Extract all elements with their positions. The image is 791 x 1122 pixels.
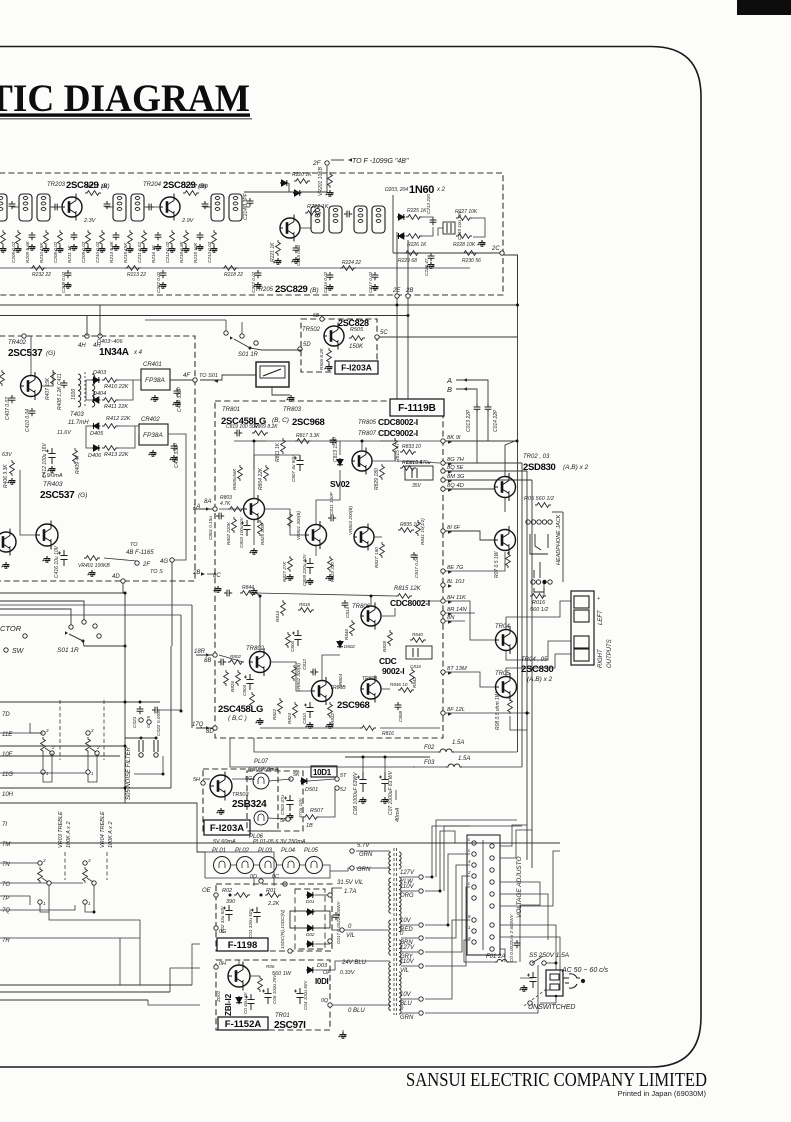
selector contact e: [23, 634, 27, 638]
node 8R 14N: [441, 611, 445, 615]
svg-text:4B F-1165: 4B F-1165: [126, 550, 154, 556]
ground ch2 b: [306, 722, 314, 728]
capacitor C220 47: [428, 253, 435, 261]
arrow 8D: [206, 726, 210, 730]
capacitor C816 boxed: [406, 646, 432, 659]
svg-text:560 1/2: 560 1/2: [530, 607, 548, 613]
transistor TR502 2SC828: [324, 323, 344, 350]
svg-text:2SC968: 2SC968: [292, 417, 325, 428]
svg-text:C803 100u10V: C803 100u10V: [239, 516, 244, 548]
svg-text:2SC829: 2SC829: [275, 284, 308, 295]
resistor R02 390: [234, 893, 250, 898]
svg-text:ORG: ORG: [400, 893, 414, 899]
resistor R826: [236, 670, 241, 686]
svg-text:2B: 2B: [405, 288, 413, 294]
wire VR01 t1: [42, 753, 44, 770]
svg-text:VR804: VR804: [338, 674, 343, 688]
svg-text:R217 680: R217 680: [184, 184, 209, 190]
node tap GRY: [419, 950, 423, 954]
svg-text:R825 3.3K: R825 3.3K: [260, 522, 265, 545]
junction ch1 a: [253, 440, 256, 443]
svg-text:2SC830: 2SC830: [521, 664, 554, 675]
switch S01 contact a: [224, 331, 228, 335]
dashed unswitched link: [524, 990, 545, 1006]
selector pin R2: [490, 856, 494, 860]
transistor TR01 2SC971: [228, 962, 250, 991]
resistor R016: [530, 594, 546, 599]
arrow 8H 11K: [448, 600, 452, 604]
lamp dashed box: [247, 771, 303, 831]
svg-text:R016: R016: [532, 600, 546, 606]
switch S01b pole: [82, 640, 85, 643]
wire det out4: [117, 426, 135, 448]
ground C209 0.02 r: [84, 246, 92, 252]
svg-text:R846: R846: [344, 629, 349, 640]
capacitor C08 1000uF: [357, 772, 367, 792]
capacitor R211 1K: [71, 232, 78, 240]
selector contact c: [93, 624, 97, 628]
wire f01 r: [509, 961, 517, 963]
resistor C205 0.02: [16, 230, 21, 246]
wire treble links: [40, 885, 49, 912]
wire tr02 c: [505, 441, 515, 476]
ground C211 0.02 r: [140, 246, 148, 252]
svg-text:F01 2A: F01 2A: [486, 954, 505, 960]
wire pl06: [268, 818, 286, 819]
svg-text:2.9V: 2.9V: [181, 218, 195, 224]
svg-text:10H: 10H: [2, 792, 14, 798]
ground VR401: [88, 570, 96, 576]
wire jack return: [562, 512, 564, 582]
headphone jack upper: [526, 520, 552, 554]
capacitor C014 22P: [485, 404, 492, 412]
wire 5J r507: [317, 788, 335, 817]
wire tr403 base: [20, 470, 36, 535]
wire 8T tr05: [445, 672, 495, 687]
svg-text:TR805: TR805: [358, 420, 377, 426]
svg-text:11.6V: 11.6V: [57, 430, 72, 436]
unswitched outlet: [546, 970, 563, 996]
selector contact b: [82, 620, 86, 624]
svg-text:R02: R02: [222, 888, 232, 894]
wire c022 link: [160, 709, 181, 711]
resistor R804 22K: [264, 465, 269, 481]
svg-text:ZBI-I2: ZBI-I2: [224, 993, 233, 1016]
wire c07 drop: [384, 757, 386, 772]
svg-text:C809 220u 10V: C809 220u 10V: [302, 553, 307, 586]
IFT T204 secondary: [229, 194, 242, 221]
wire sel vert1: [170, 646, 172, 788]
svg-text:0G: 0G: [219, 929, 227, 935]
svg-text:FP38A: FP38A: [145, 377, 165, 384]
IFT T206 secondary: [372, 206, 385, 233]
ground 0.02 r: [0, 246, 6, 252]
svg-text:11.7mH: 11.7mH: [68, 420, 89, 426]
wire tr01 wiring2: [238, 960, 240, 965]
ground R209 5.6K: [28, 244, 36, 250]
selector pin L4: [472, 874, 476, 878]
VR02 terminal 3: [86, 731, 90, 735]
svg-text:C06 100u 25V: C06 100u 25V: [272, 974, 277, 1004]
wire 5T out: [308, 779, 335, 781]
resistor R411 22K: [102, 398, 118, 403]
switch S5 arm: [532, 956, 543, 963]
wire mesh blu: [425, 920, 470, 999]
ground VR201: [326, 190, 334, 196]
junction 4D line: [124, 645, 127, 648]
capacitor R209 5.6K: [29, 232, 36, 240]
resistor 0.02: [1, 230, 6, 246]
junction 4D b: [124, 592, 127, 595]
svg-text:5K: 5K: [293, 772, 300, 778]
svg-text:TR403: TR403: [43, 481, 63, 488]
wire line cap: [520, 977, 533, 979]
wire 8H tr04: [445, 601, 495, 640]
ground CR401: [151, 395, 159, 401]
ground line filter: [520, 985, 528, 991]
junction 8F v3: [526, 712, 529, 715]
svg-text:4G: 4G: [160, 559, 168, 565]
selector pin L5: [472, 885, 476, 889]
capacitor C212 0.02 bus: [255, 270, 262, 278]
node 8L 10J: [441, 583, 445, 587]
resistor R818: [298, 608, 314, 613]
wire CR402 out: [168, 434, 186, 560]
wire 5B up: [321, 316, 323, 318]
junction plug top: [555, 962, 558, 965]
node 4H a: [85, 334, 89, 338]
wire 4H drop a: [86, 316, 88, 337]
wire tr801 collector bus: [253, 455, 255, 470]
svg-text:18R: 18R: [194, 649, 206, 655]
pilot lamp PL03: [260, 857, 277, 874]
label box F-1152A: [218, 1017, 268, 1030]
capacitor C813 150P: [330, 437, 337, 445]
capacitor R216 1K: [155, 232, 162, 240]
VR04 terminal 1: [83, 900, 87, 904]
svg-text:R844: R844: [242, 585, 254, 591]
switch S5 b: [542, 961, 546, 965]
svg-text:D403~406: D403~406: [97, 339, 123, 345]
transformer secondary w1: [399, 852, 401, 869]
resistor R227 10K: [456, 216, 472, 221]
wire tr801 e: [253, 520, 255, 545]
ground C503: [286, 813, 294, 819]
2SB324 regulator dashed box: [203, 769, 278, 831]
capacitor C414 330P: [174, 388, 181, 396]
pot VR03 wiper: [42, 878, 48, 882]
resistor R833 10: [400, 450, 416, 455]
wire switch top: [145, 319, 226, 321]
resistor R814: [281, 600, 286, 616]
svg-text:S5 250V 1.5A: S5 250V 1.5A: [529, 952, 569, 959]
svg-text:1.5A: 1.5A: [458, 756, 470, 762]
wire 8E jack: [445, 552, 505, 571]
resistor R829 180: [380, 464, 385, 480]
capacitor line filter: [514, 940, 521, 948]
svg-text:R211 1K: R211 1K: [67, 245, 72, 263]
transistor TR203 2SC829: [62, 194, 82, 221]
resistor R844: [240, 591, 256, 596]
svg-text:10V: 10V: [400, 918, 412, 924]
svg-text:( B,C ): ( B,C ): [228, 715, 247, 722]
node 4G: [170, 558, 174, 562]
node 2F: [325, 161, 329, 165]
wire 1N60 links2: [419, 227, 433, 236]
svg-text:R837' 180: R837' 180: [374, 547, 379, 568]
selector key line: [482, 840, 484, 950]
diode D801 SV02: [337, 458, 343, 466]
svg-text:VR03 TREBLE: VR03 TREBLE: [58, 811, 64, 848]
node 5B: [320, 317, 324, 321]
svg-text:VR401 100KB: VR401 100KB: [78, 563, 110, 569]
svg-text:17Q: 17Q: [192, 722, 204, 728]
wire 4B out: [104, 558, 137, 561]
wire 0C up: [214, 852, 274, 886]
power transformer core: [394, 848, 397, 1015]
wire jack return top: [552, 511, 563, 513]
transistor TR403 2SC537: [36, 521, 58, 550]
wire 1N60 links: [419, 217, 433, 222]
svg-text:D02: D02: [306, 932, 315, 937]
svg-text:C219 10u 10V: C219 10u 10V: [457, 210, 462, 240]
svg-text:C205 0.02: C205 0.02: [11, 241, 16, 263]
diode D406: [92, 445, 100, 451]
selector pin R3: [490, 868, 494, 872]
ground R210 15K r: [42, 246, 50, 252]
wire bottom 2C: [393, 252, 500, 254]
wire switch to 5D: [250, 348, 302, 350]
switch S01 arrowhead: [230, 336, 233, 340]
svg-text:6.3V 250mA: 6.3V 250mA: [248, 767, 279, 773]
ground tr801: [250, 548, 258, 554]
svg-text:(A,B) x 2: (A,B) x 2: [563, 464, 589, 471]
svg-text:D406: D406: [88, 453, 102, 459]
ground R406: [8, 478, 16, 484]
svg-text:TR803: TR803: [283, 407, 302, 413]
F-1152A dashed enclosure: [216, 960, 330, 1030]
resistor R406 3.3K: [10, 460, 15, 476]
arrow 8F 12L: [448, 712, 452, 716]
junction r02: [229, 894, 232, 897]
dashed bass track: [59, 700, 61, 760]
resistor C209 0.02: [86, 230, 91, 246]
junction left vert: [124, 787, 127, 790]
resistor R840: [410, 638, 426, 643]
wire lamp bus bot: [205, 865, 330, 878]
svg-text:VOLTAGE ADJUSTO: VOLTAGE ADJUSTO: [516, 856, 523, 918]
resistor R836 10: [398, 688, 414, 693]
wire treble h5: [0, 905, 75, 910]
svg-text:R07 0.5 1W: R07 0.5 1W: [494, 550, 500, 578]
selector pin R8: [490, 935, 494, 939]
diode D802: [337, 640, 343, 648]
svg-text:7I: 7I: [2, 822, 7, 828]
wire f1119 bottom drop b: [230, 738, 415, 767]
capacitor C205a: [9, 201, 16, 209]
junction nf3: [155, 737, 158, 740]
wire sel vert2: [180, 615, 182, 711]
svg-text:CTOR: CTOR: [0, 624, 22, 633]
resistor R228 10K: [456, 234, 472, 239]
svg-text:PL01-05 6.3V 250mA: PL01-05 6.3V 250mA: [253, 839, 306, 845]
svg-text:C814: C814: [345, 607, 350, 618]
wire rect out2: [315, 943, 330, 945]
resistor R08: [508, 698, 513, 714]
svg-text:10DC(R),10DC(N): 10DC(R),10DC(N): [280, 909, 286, 949]
wire ch1 mid: [339, 441, 341, 455]
svg-text:S01 1R: S01 1R: [57, 647, 79, 654]
svg-text:7P: 7P: [2, 896, 9, 902]
resistor R848: [388, 630, 393, 646]
transistor TR804 2SC968: [312, 677, 333, 705]
junction bus y305 b: [516, 304, 519, 307]
IF amplifier dashed enclosure: [0, 173, 503, 295]
svg-text:CDC8002-I: CDC8002-I: [390, 598, 430, 608]
wire lamp links4: [299, 864, 306, 866]
svg-text:R221 1K: R221 1K: [270, 242, 276, 262]
wire treble h6: [0, 937, 140, 939]
transformer secondary w4: [399, 972, 401, 1014]
svg-text:D404: D404: [93, 391, 106, 397]
resistor R815 47: [393, 438, 398, 454]
transistor TR205 2SC829: [280, 215, 300, 242]
IFT T206 primary: [354, 206, 367, 233]
wire det out3: [117, 426, 139, 434]
svg-text:C021: C021: [132, 716, 138, 728]
svg-text:TO S: TO S: [150, 569, 163, 575]
T403 core: [84, 372, 86, 408]
svg-text:TR807: TR807: [358, 431, 377, 437]
wire 8I to tr03: [445, 531, 494, 540]
diode D204: [397, 233, 405, 239]
svg-text:8B: 8B: [204, 658, 211, 664]
svg-text:11E: 11E: [2, 732, 13, 738]
svg-text:ZD01: ZD01: [216, 990, 221, 1003]
resistor R828b: [224, 670, 229, 686]
pot VR801: [288, 512, 293, 528]
svg-text:VR201 10KB: VR201 10KB: [318, 166, 324, 196]
svg-text:(G): (G): [78, 492, 87, 499]
ground C272 0.02 bus: [159, 282, 167, 288]
node 8N: [441, 619, 445, 623]
capacitor C811 100P: [328, 515, 336, 522]
arrow 8K 9I: [448, 440, 452, 444]
wire s5 out: [546, 962, 556, 964]
svg-text:R220 1K: R220 1K: [292, 172, 312, 178]
capacitor C808: [395, 702, 402, 710]
resistor R410 22K: [102, 378, 118, 383]
transistor TR806 CDC8002: [361, 603, 381, 630]
svg-text:OE: OE: [202, 888, 212, 894]
wire ch2 base: [219, 655, 243, 662]
svg-text:C0 0.0022u x 2 600WV: C0 0.0022u x 2 600WV: [509, 914, 514, 962]
transistor TR803 2SC968: [306, 521, 327, 549]
wire nf h1: [0, 745, 125, 747]
svg-text:R06: R06: [266, 964, 275, 969]
node C022: [147, 720, 151, 724]
wire left vert ext: [124, 746, 126, 803]
dashed treble track: [64, 852, 66, 880]
wire bus y303: [0, 255, 518, 305]
svg-text:0 BLU: 0 BLU: [348, 1008, 365, 1014]
svg-text:(G): (G): [46, 350, 55, 357]
node 5K: [289, 777, 293, 781]
wire meter left: [200, 375, 256, 380]
junction r01: [260, 894, 263, 897]
IF stage link a: [12, 206, 19, 208]
resistor R225 1K: [406, 215, 422, 220]
svg-text:TR802: TR802: [246, 646, 265, 652]
svg-text:5.7V: 5.7V: [357, 843, 370, 849]
svg-text:5D: 5D: [303, 342, 311, 348]
junction v1 top: [516, 440, 519, 443]
node GRN a: [350, 849, 354, 853]
capacitor C209a: [146, 204, 154, 211]
transformer secondary w3: [399, 940, 401, 965]
wire r816 bus2: [380, 727, 440, 729]
svg-text:1.5A: 1.5A: [452, 740, 464, 746]
pot VR02 BASS: [86, 737, 91, 753]
svg-text:TO S01: TO S01: [199, 373, 218, 379]
transformer primary w4: [389, 962, 391, 1010]
IFT T201 (cut): [0, 194, 7, 221]
diode D03: [306, 967, 314, 973]
wire tr803 b: [264, 509, 305, 535]
svg-text:TR02 , 03: TR02 , 03: [523, 454, 550, 460]
svg-text:1B: 1B: [306, 823, 313, 829]
wire reg top: [203, 778, 210, 780]
F-1203A meter dashed box: [301, 319, 377, 372]
capacitor C022 0.005: [152, 707, 160, 714]
node 8Q 4D: [441, 487, 445, 491]
capacitor C819: [234, 430, 242, 437]
svg-text:CDC9002-I: CDC9002-I: [378, 428, 418, 438]
svg-text:C212 0.02: C212 0.02: [251, 271, 256, 293]
node rect bottom: [288, 949, 292, 953]
svg-text:8T 13M: 8T 13M: [447, 666, 467, 672]
wire tr04 e: [506, 641, 571, 660]
wire det out2: [117, 380, 133, 400]
svg-text:5T: 5T: [340, 773, 347, 779]
wire tr05 e: [506, 697, 510, 699]
node tap ORG: [419, 889, 423, 893]
wire bus y313: [0, 315, 408, 317]
capacitor C416 10u 10V: [58, 550, 68, 566]
arrow TO S01: [214, 379, 218, 383]
arrow B: [463, 387, 467, 391]
ground C216: [326, 284, 334, 290]
wire 8M to v4: [445, 479, 532, 481]
VR04 terminal 2: [92, 881, 96, 885]
wire mesh org: [425, 831, 470, 891]
svg-text:C208 0.02: C208 0.02: [53, 241, 58, 263]
svg-text:R212 1K: R212 1K: [86, 184, 108, 190]
resistor R823 220K: [232, 517, 237, 533]
node 8A: [213, 507, 217, 511]
resistor R224 22: [340, 266, 356, 271]
ceramic filter CR402 FP38A: [139, 424, 168, 445]
node 4H b: [98, 334, 102, 338]
svg-text:F-1152A: F-1152A: [225, 1019, 262, 1030]
wire tr802 c: [256, 593, 260, 651]
node tap YLW: [419, 875, 423, 879]
wire B: [456, 389, 477, 404]
F1119 ch1 gnd bus: [254, 547, 330, 549]
wire r08 gnd: [510, 716, 527, 730]
ground ch1 b: [306, 578, 314, 584]
capacitor C817: [411, 552, 418, 560]
